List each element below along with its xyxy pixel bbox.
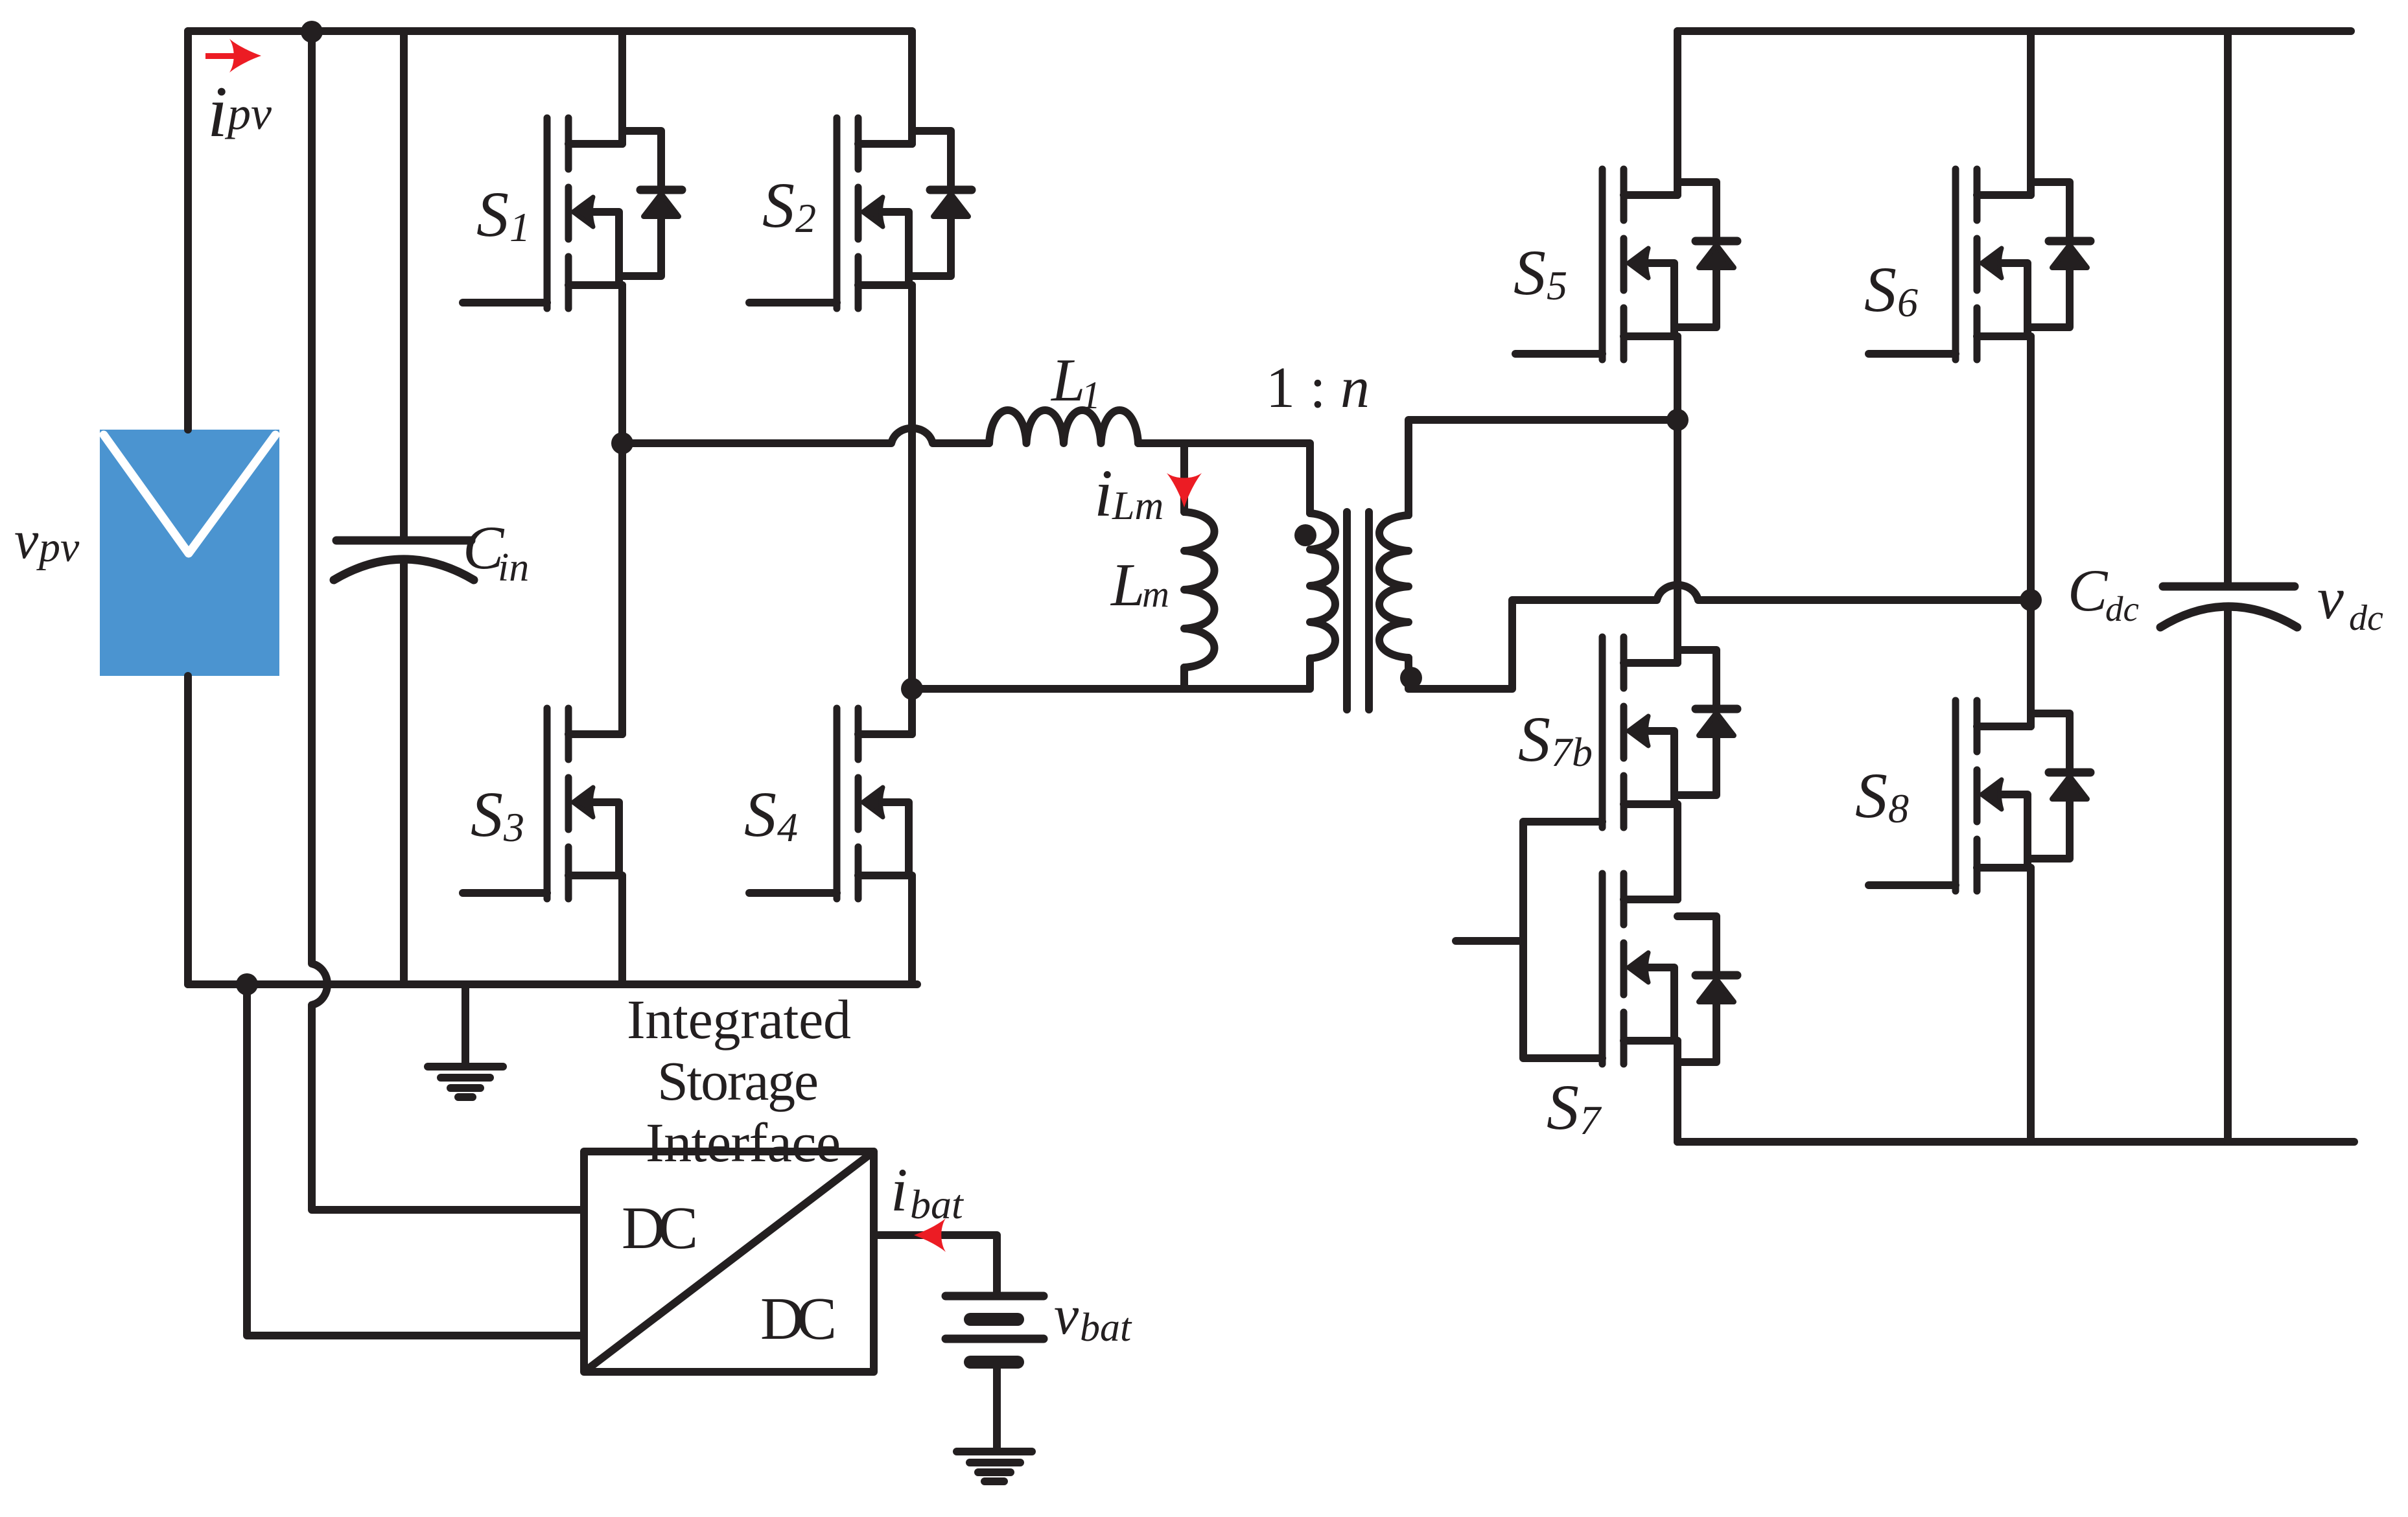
transistor S3 source link (568, 872, 622, 879)
transistor S4 drain lead (908, 689, 916, 734)
wire PV negative lead (184, 676, 192, 984)
diode (body) of S8 (2031, 713, 2070, 859)
node S5 source / S7b drain (1666, 409, 1689, 431)
transistor S6 gate bar (1952, 169, 1959, 360)
svg-text:S: S (1864, 253, 1897, 325)
svg-text:1: 1 (509, 204, 530, 250)
transformer secondary polarity dot (1400, 667, 1422, 689)
svg-text:5: 5 (1547, 262, 1567, 308)
transistor S1 drain link (568, 140, 622, 148)
transistor S3 gate lead (463, 889, 547, 897)
transistor S6 drain lead (2027, 31, 2035, 195)
transistor S1 source lead (618, 285, 626, 443)
transistor S1 drain lead (618, 31, 626, 144)
svg-text:C: C (2068, 557, 2109, 623)
current arrow i_bat (914, 1218, 946, 1252)
transistor S5 drain lead (1674, 31, 1681, 195)
svg-text:i: i (207, 72, 228, 152)
transistor S3 drain lead (618, 443, 626, 734)
inductor Lm (1184, 512, 1215, 667)
diode (body) of S2 (912, 131, 951, 276)
transistor S4 drain link (858, 730, 912, 738)
transistor S3 source lead (618, 875, 626, 984)
transistor S7b drain lead (1674, 420, 1681, 663)
svg-text:bat: bat (910, 1181, 964, 1227)
transistor S1 source link (568, 281, 622, 289)
transistor S1 channel dashes (565, 118, 572, 308)
transistor S2 body arrow (883, 212, 909, 285)
wire input column to storage upper input (hops over bottom rail) (312, 31, 584, 1210)
wire bottom-left rail (188, 980, 917, 988)
transistor S7 body arrow (1649, 967, 1674, 1041)
transistor S5 drain link (1624, 191, 1677, 199)
svg-text:1 : n: 1 : n (1266, 356, 1370, 420)
svg-text:Storage: Storage (657, 1050, 819, 1112)
transistor S7b channel dashes (1620, 637, 1628, 828)
node bottom rail / storage tap (236, 973, 258, 995)
svg-text:L: L (1110, 551, 1145, 619)
svg-text:8: 8 (1888, 785, 1909, 831)
transistor S3 channel dashes (565, 708, 572, 899)
transistor S2 source lead (908, 285, 916, 689)
svg-text:S: S (1547, 1071, 1579, 1143)
svg-text:DC: DC (622, 1195, 698, 1262)
svg-text:S: S (744, 778, 777, 850)
svg-text:S: S (1518, 703, 1550, 775)
transistor S5 body arrow (1649, 263, 1674, 336)
transistor S7 gate bar (1599, 874, 1606, 1064)
wire L1 to transformer primary top (1138, 443, 1310, 513)
diode (body) of S7b (1677, 650, 1716, 795)
wire PV positive lead (184, 31, 192, 430)
svg-text:bat: bat (1080, 1306, 1132, 1350)
wire secondary bottom to S6/S8 node (hops over S7b leg) (1409, 585, 2031, 689)
capacitor Cin branch bottom (400, 561, 408, 984)
node A bridge left midpoint (611, 432, 633, 454)
transistor S3 drain link (568, 730, 622, 738)
transistor S4 source lead (908, 875, 916, 984)
svg-text:S: S (476, 178, 509, 250)
svg-text:v: v (2317, 565, 2344, 631)
transistor S8 source lead (2027, 868, 2035, 1142)
transistor S2 channel dashes (855, 118, 862, 308)
node S6 source / S8 drain (2020, 589, 2042, 611)
svg-text:7: 7 (1580, 1097, 1602, 1143)
svg-text:2: 2 (795, 195, 816, 241)
inductor Lm branch bottom (1180, 667, 1188, 689)
DC/DC converter box (584, 1152, 874, 1372)
transistor S8 gate lead (1869, 881, 1956, 889)
transistor S8 source link (1977, 864, 2031, 872)
svg-text:Lm: Lm (1112, 484, 1163, 528)
transistor S4 channel dashes (855, 708, 862, 899)
transistor S6 channel dashes (1974, 169, 1981, 360)
transistor S4 source link (858, 872, 912, 879)
transistor S2 gate lead (749, 299, 837, 307)
transistor S5 gate lead (1515, 350, 1602, 358)
node B bridge right midpoint (901, 678, 923, 700)
svg-text:1: 1 (1081, 374, 1101, 417)
capacitor Cdc plates (2163, 583, 2295, 591)
wire bottom-right rail (1677, 1138, 2354, 1146)
svg-text:S: S (762, 169, 795, 241)
transistor S3 gate bar (544, 708, 551, 899)
transistor S6 gate lead (1869, 350, 1956, 358)
wire node B to transformer primary bottom (912, 658, 1310, 689)
capacitor Cin branch top (400, 31, 408, 537)
svg-text:m: m (1142, 573, 1169, 615)
svg-text:L: L (1050, 347, 1085, 414)
transistor S7b gate bar (1599, 637, 1606, 828)
wire battery to ground (993, 1362, 1001, 1452)
current arrow i_pv (205, 53, 240, 59)
wire top-left rail (188, 27, 912, 35)
battery vbat (946, 1292, 1044, 1301)
capacitor Cdc branch bottom (2224, 608, 2232, 1142)
transistor S1 gate lead (463, 299, 547, 307)
transistor S7b body arrow (1649, 731, 1674, 804)
transistor S7 source link (1624, 1037, 1677, 1045)
wire node A to L1 (hops over S2/S4 leg) (622, 428, 989, 443)
svg-text:S: S (1514, 237, 1546, 308)
transistor S8 gate bar (1952, 701, 1959, 891)
svg-text:4: 4 (777, 804, 798, 850)
svg-text:Interface: Interface (646, 1111, 841, 1174)
transformer primary winding (1310, 513, 1335, 658)
transistor S7 channel dashes (1620, 874, 1628, 1064)
ground (battery side) (957, 1452, 1032, 1481)
transistor S7b drain link (1624, 659, 1677, 667)
current arrow i_Lm (1167, 473, 1202, 507)
transistor S2 drain link (858, 140, 912, 148)
transistor S5 gate bar (1599, 169, 1606, 360)
transformer core (1347, 512, 1369, 710)
transistor S7b source link (1624, 800, 1677, 808)
transistor S8 channel dashes (1974, 701, 1981, 891)
svg-text:3: 3 (503, 804, 524, 850)
inductor Lm branch top (1180, 443, 1188, 512)
transistor S1 body arrow (594, 212, 619, 285)
svg-text:in: in (498, 546, 529, 590)
wire secondary top to S5 node (1409, 420, 1677, 515)
transistor S2 gate bar (834, 118, 841, 308)
svg-text:v: v (1054, 1284, 1079, 1346)
wire storage lower input (247, 984, 584, 1336)
diode (body) of S5 (1677, 182, 1716, 327)
transistor S1 gate bar (544, 118, 551, 308)
transistor S2 source link (858, 281, 912, 289)
diode (body) of S1 (622, 131, 661, 276)
transistor S6 source link (1977, 332, 2031, 340)
transistor S7 source lead (1674, 1041, 1681, 1142)
svg-text:dc: dc (2105, 589, 2139, 629)
capacitor Cin plates (336, 537, 471, 545)
diode (body) of S6 (2031, 182, 2070, 327)
transistor S6 source lead (2027, 336, 2035, 600)
inductor L1 (989, 410, 1138, 443)
svg-text:pv: pv (224, 87, 272, 139)
transistor S6 drain link (1977, 191, 2031, 199)
transistor S2 drain lead (908, 31, 916, 144)
svg-text:i: i (1094, 456, 1113, 531)
transformer secondary winding (1379, 515, 1409, 658)
transistor S8 drain lead (2027, 600, 2035, 726)
transistor S3 body arrow (594, 802, 619, 875)
svg-text:6: 6 (1897, 279, 1918, 325)
transistor S7b source lead (1674, 804, 1681, 899)
diode (body) of S7 (1677, 916, 1716, 1062)
transistor S5 source link (1624, 332, 1677, 340)
svg-text:DC: DC (760, 1286, 837, 1352)
svg-text:pv: pv (36, 524, 80, 571)
capacitor Cdc branch top (2224, 31, 2232, 583)
svg-text:Integrated: Integrated (627, 988, 851, 1050)
transformer primary polarity dot (1294, 524, 1316, 546)
transistor S8 drain link (1977, 723, 2031, 730)
transistor S8 body arrow (2002, 794, 2028, 868)
wire top-right rail (1677, 27, 2351, 35)
transistor S6 body arrow (2002, 263, 2028, 336)
transistor S5 source lead (1674, 336, 1681, 420)
wire DC/DC output to battery (874, 1235, 997, 1292)
svg-text:S: S (471, 778, 503, 850)
node top rail / storage tap (301, 21, 323, 43)
svg-text:i: i (891, 1155, 907, 1224)
svg-text:S: S (1855, 759, 1888, 831)
transistor S4 gate bar (834, 708, 841, 899)
svg-text:dc: dc (2349, 598, 2383, 638)
PV panel (photovoltaic source) (100, 430, 279, 676)
transistor S4 body arrow (883, 802, 909, 875)
wire S7b/S7 common gate bracket (1456, 822, 1602, 1058)
transistor S7 drain link (1624, 896, 1677, 903)
svg-text:v: v (14, 510, 39, 570)
transistor S5 channel dashes (1620, 169, 1628, 360)
transistor S4 gate lead (749, 889, 837, 897)
ground (input side) (428, 984, 503, 1097)
svg-text:7b: 7b (1551, 729, 1593, 775)
